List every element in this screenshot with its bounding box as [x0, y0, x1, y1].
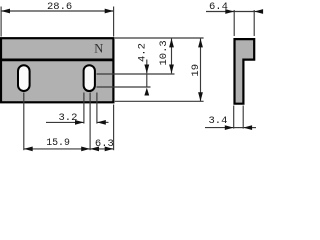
dim 4.2 line upper — [146, 60, 148, 74]
dim 19 arrow up — [198, 39, 203, 48]
dim 28.6 extension right — [113, 7, 115, 37]
dim 3.4 extension right — [242, 106, 244, 129]
slot bottom extension to right — [97, 86, 151, 88]
dim 3.2 line right tail — [97, 121, 109, 123]
dim 3.4 arrow left — [225, 125, 234, 130]
dim 6.4 line right tail — [254, 11, 262, 13]
svg-text:19: 19 — [190, 64, 202, 77]
dim 10.3 arrow down — [169, 65, 174, 74]
dim 6.4 arrow right — [254, 9, 263, 14]
svg-text:28.6: 28.6 — [47, 1, 72, 13]
divider line — [0, 59, 114, 62]
right slot — [84, 65, 95, 91]
svg-text:3.2: 3.2 — [59, 112, 78, 124]
dim 19 arrow down — [198, 92, 203, 101]
dim 4.2 arrow down — [144, 65, 149, 74]
left slot centerline down — [23, 93, 25, 151]
bottom edge extension to right — [115, 100, 204, 102]
dim 3.2 line left tail — [46, 121, 84, 123]
dim 10.3 arrow up — [169, 39, 174, 48]
dim 3.4 extension left — [233, 106, 235, 129]
svg-text:4.2: 4.2 — [137, 43, 149, 62]
dim 6.3 line — [90, 148, 114, 150]
dim 6.4 arrow left — [225, 9, 234, 14]
slot left-edge extension down — [83, 93, 85, 124]
slot right-edge extension down — [96, 93, 98, 124]
side view profile — [235, 39, 255, 104]
svg-text:15.9: 15.9 — [46, 137, 70, 148]
dim 3.2 arrow left — [75, 120, 84, 125]
dim 10.3 line — [171, 39, 173, 74]
dim 28.6 arrow right — [105, 9, 114, 14]
dim 15.9 arrow left — [24, 147, 33, 152]
dim 4.2 line middle — [146, 74, 148, 87]
dim 3.4 line left tail — [205, 127, 234, 129]
slot top extension to right — [97, 73, 175, 75]
dim 4.2 arrow up — [144, 88, 149, 96]
svg-text:3.4: 3.4 — [209, 115, 228, 127]
dim 6.3 arrow left — [90, 147, 99, 152]
svg-text:6.4: 6.4 — [209, 1, 228, 13]
dim 6.4 extension right — [253, 10, 255, 36]
left slot — [18, 65, 30, 91]
dim 3.4 line right tail — [243, 127, 256, 129]
dim 3.2 arrow right — [97, 120, 106, 125]
dim 6.4 extension left — [233, 10, 235, 36]
svg-text:N: N — [94, 41, 103, 55]
svg-text:6.3: 6.3 — [95, 138, 114, 150]
part right-edge extension down — [113, 105, 115, 151]
dim 3.4 line middle — [234, 127, 244, 129]
dim 3.4 arrow right — [243, 125, 252, 130]
top edge extension to right — [115, 37, 204, 39]
dim 19 line — [200, 39, 202, 102]
svg-text:10.3: 10.3 — [158, 40, 170, 65]
dim 28.6 line — [1, 10, 114, 12]
dim 15.9 arrow right — [81, 147, 90, 152]
dim 28.6 extension left — [0, 7, 2, 37]
front view body — [1, 38, 113, 102]
dim 15.9 line — [24, 148, 90, 150]
right slot centerline down — [89, 93, 91, 151]
dim 6.4 line middle — [234, 11, 254, 13]
dim 6.3 arrow right — [105, 147, 114, 152]
dim 28.6 arrow left — [1, 9, 10, 14]
dim 6.4 line left tail — [206, 11, 234, 13]
